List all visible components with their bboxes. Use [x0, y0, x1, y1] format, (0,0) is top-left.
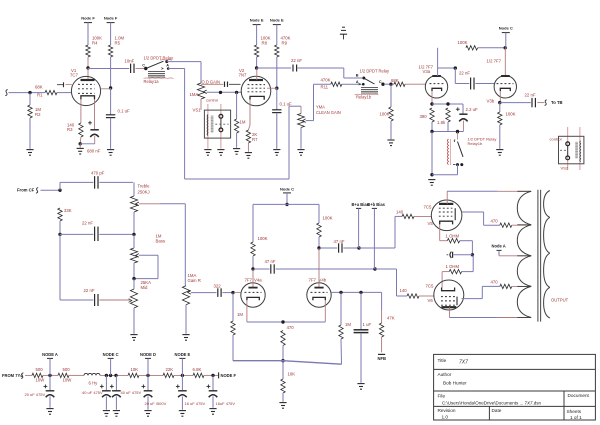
svg-text:From CF: From CF	[17, 187, 35, 192]
svg-text:1M: 1M	[237, 312, 243, 317]
svg-text:6.8K: 6.8K	[193, 367, 202, 372]
svg-text:1/2 DPDT Relay: 1/2 DPDT Relay	[360, 68, 390, 73]
svg-text:1.8k: 1.8k	[437, 120, 446, 125]
svg-text:470: 470	[491, 280, 499, 285]
svg-text:C:\Users\Honda\OneDrive\Docume: C:\Users\Honda\OneDrive\Documents ... 7X…	[442, 401, 542, 406]
svg-text:33K: 33K	[64, 208, 72, 213]
svg-text:R7: R7	[252, 137, 258, 142]
svg-text:Node A: Node A	[492, 243, 506, 248]
svg-text:Gain R: Gain R	[188, 278, 201, 283]
svg-text:Document: Document	[568, 393, 590, 398]
svg-text:470: 470	[287, 325, 295, 330]
svg-text:7C7: 7C7	[70, 72, 78, 77]
svg-text:A: A	[166, 64, 169, 68]
svg-text:500: 500	[36, 367, 44, 372]
svg-text:R9: R9	[282, 41, 288, 46]
svg-text:Relay1b: Relay1b	[468, 141, 483, 146]
svg-text:40 uF 475V: 40 uF 475V	[121, 390, 142, 395]
svg-text:R3: R3	[67, 127, 73, 132]
svg-text:1/2 7F7: 1/2 7F7	[487, 58, 502, 63]
svg-text:500: 500	[63, 367, 71, 372]
svg-text:NODE D: NODE D	[140, 352, 156, 357]
svg-text:20 uF /500V: 20 uF /500V	[145, 401, 167, 406]
svg-text:22 nF: 22 nF	[291, 58, 302, 63]
svg-text:322: 322	[214, 284, 222, 289]
svg-text:390: 390	[420, 114, 428, 119]
svg-text:470: 470	[491, 218, 499, 223]
svg-text:140: 140	[396, 210, 404, 215]
svg-text:Revision: Revision	[438, 408, 456, 413]
svg-text:40 uF 475V: 40 uF 475V	[82, 390, 103, 395]
svg-text:1M: 1M	[240, 119, 246, 124]
svg-text:2.2 uF: 2.2 uF	[466, 107, 479, 112]
svg-text:Node C: Node C	[280, 186, 294, 191]
svg-text:R8: R8	[262, 41, 268, 46]
svg-text:NODE A: NODE A	[42, 352, 58, 357]
svg-text:10K: 10K	[131, 367, 139, 372]
svg-text:Relay1b: Relay1b	[356, 94, 372, 99]
svg-text:Node F: Node F	[81, 15, 95, 20]
svg-text:V3b: V3b	[487, 99, 495, 104]
svg-text:16uF 475V: 16uF 475V	[216, 401, 236, 406]
svg-text:V6: V6	[428, 298, 434, 303]
svg-text:Bob Hunter: Bob Hunter	[443, 381, 467, 386]
svg-text:680 nF: 680 nF	[87, 148, 101, 153]
svg-text:Date: Date	[492, 408, 502, 413]
svg-text:To TB: To TB	[551, 100, 563, 105]
svg-text:1 of 1: 1 of 1	[570, 415, 582, 420]
svg-text:Relay1a: Relay1a	[144, 79, 160, 84]
svg-text:Sheets: Sheets	[567, 409, 582, 414]
svg-text:C: C	[142, 64, 145, 68]
svg-text:VS1: VS1	[193, 108, 202, 113]
svg-text:100K: 100K	[258, 236, 268, 241]
svg-text:22K: 22K	[166, 367, 174, 372]
svg-text:0.1 uF: 0.1 uF	[280, 101, 293, 106]
svg-text:1 OHM: 1 OHM	[446, 264, 460, 269]
svg-text:NFB: NFB	[378, 356, 386, 361]
svg-text:V4a: V4a	[254, 278, 262, 283]
svg-text:File: File	[438, 394, 446, 399]
svg-text:Author: Author	[438, 372, 452, 377]
svg-text:control: control	[550, 137, 562, 142]
svg-text:100K: 100K	[323, 216, 333, 221]
svg-text:470K: 470K	[321, 77, 331, 82]
svg-text:1 uF: 1 uF	[363, 322, 372, 327]
svg-text:A: A	[356, 80, 359, 84]
svg-text:V3a: V3a	[423, 69, 431, 74]
svg-text:R4: R4	[92, 41, 98, 46]
svg-text:VS2: VS2	[561, 165, 569, 170]
svg-text:NODE F: NODE F	[221, 373, 237, 378]
svg-text:10W: 10W	[63, 378, 73, 383]
svg-text:68K: 68K	[391, 78, 399, 83]
svg-text:16 uF 475V: 16 uF 475V	[185, 401, 206, 406]
svg-text:47 nF: 47 nF	[265, 259, 276, 264]
svg-text:20 uF 475V: 20 uF 475V	[25, 392, 46, 397]
svg-text:V4b: V4b	[319, 278, 327, 283]
svg-text:Node F: Node F	[104, 15, 118, 20]
svg-text:1MA: 1MA	[190, 92, 199, 97]
svg-text:250KJ: 250KJ	[138, 190, 150, 195]
svg-text:control: control	[206, 97, 218, 102]
svg-text:100K: 100K	[458, 40, 468, 45]
svg-text:68K: 68K	[35, 85, 43, 90]
svg-text:C: C	[379, 80, 382, 84]
svg-text:47K: 47K	[387, 316, 395, 321]
svg-text:140: 140	[400, 288, 408, 293]
svg-text:22 nF: 22 nF	[525, 92, 536, 97]
svg-text:Node E: Node E	[250, 17, 264, 22]
svg-text:Node E: Node E	[270, 17, 284, 22]
svg-text:7C5: 7C5	[426, 283, 434, 288]
svg-text:47 nF: 47 nF	[334, 239, 345, 244]
svg-text:B+b Bias: B+b Bias	[367, 202, 385, 207]
svg-text:0.1 uF: 0.1 uF	[118, 108, 131, 113]
svg-text:7F7: 7F7	[245, 278, 253, 283]
svg-text:6 Hy: 6 Hy	[89, 381, 99, 386]
svg-text:CLEAN GAIN: CLEAN GAIN	[316, 110, 341, 115]
svg-text:1.0: 1.0	[442, 415, 449, 420]
svg-text:10nF: 10nF	[125, 58, 135, 63]
svg-text:NODE C: NODE C	[103, 352, 119, 357]
svg-text:R5: R5	[115, 41, 121, 46]
svg-text:100K: 100K	[506, 111, 516, 116]
svg-text:10K: 10K	[288, 371, 296, 376]
svg-text:22 nF: 22 nF	[82, 221, 93, 226]
svg-text:NODE E: NODE E	[175, 352, 191, 357]
svg-text:R11: R11	[321, 85, 329, 90]
svg-text:7N7: 7N7	[239, 72, 247, 77]
svg-text:FROM 7Y4: FROM 7Y4	[2, 373, 23, 378]
svg-text:1M: 1M	[345, 322, 351, 327]
svg-text:Bass: Bass	[156, 239, 166, 244]
svg-text:470 pF: 470 pF	[91, 170, 105, 175]
svg-text:B: B	[356, 74, 359, 78]
svg-text:7C5: 7C5	[424, 204, 432, 209]
svg-text:OUTPUT: OUTPUT	[551, 297, 569, 302]
svg-text:7F7: 7F7	[309, 278, 317, 283]
svg-text:Mid: Mid	[141, 285, 149, 290]
svg-text:R1: R1	[37, 93, 43, 98]
svg-text:O.D GAIN: O.D GAIN	[202, 79, 220, 84]
svg-text:22 nF: 22 nF	[459, 70, 470, 75]
svg-text:22 nF: 22 nF	[84, 288, 95, 293]
svg-text:100K: 100K	[380, 111, 390, 116]
svg-text:7X7: 7X7	[459, 360, 468, 366]
svg-text:Node C: Node C	[499, 26, 513, 31]
svg-text:Treble: Treble	[138, 184, 151, 189]
svg-text:R2: R2	[35, 112, 41, 117]
svg-text:1 OHM: 1 OHM	[446, 233, 460, 238]
svg-text:10W: 10W	[36, 378, 46, 383]
svg-text:Title: Title	[438, 358, 447, 363]
